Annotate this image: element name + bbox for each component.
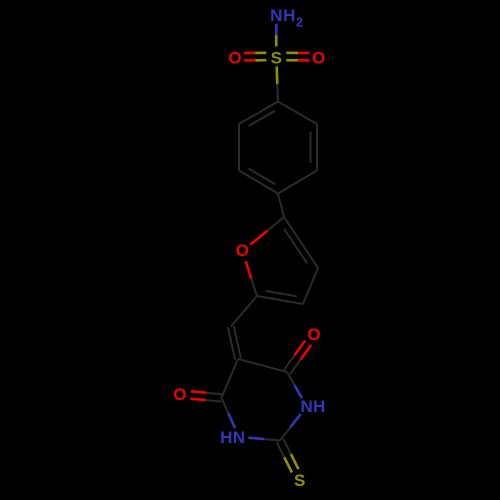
bond C5-C6 pyrimidine — [238, 359, 287, 372]
bond C6-N1 — [287, 372, 295, 385]
bond N-S (sulfonamide) — [275, 24, 278, 35]
bond furan-methine CH — [231, 296, 257, 327]
benzene ring — [278, 102, 317, 125]
bond N3-C4 — [228, 413, 235, 428]
svg-text:O: O — [173, 385, 186, 404]
svg-text:2: 2 — [296, 15, 303, 30]
bond C5furan-O — [267, 217, 284, 231]
svg-text:O: O — [228, 49, 241, 68]
bond C4-C5 pyrimidine — [221, 359, 238, 398]
svg-text:O: O — [312, 49, 325, 68]
double bond C4=O — [206, 393, 221, 394]
double bond S=O right — [286, 59, 298, 62]
bond S-C1 (to benzene) — [275, 66, 278, 84]
svg-text:O: O — [236, 241, 249, 260]
svg-text:N: N — [300, 397, 312, 416]
svg-text:H: H — [313, 397, 325, 416]
double bond C6=O — [290, 360, 301, 375]
bond C2-N3 — [264, 439, 280, 440]
svg-text:S: S — [294, 471, 305, 490]
benzene aromatic inner bonds — [249, 111, 276, 126]
double bond C2=S — [277, 442, 285, 457]
bond benzene-furan — [278, 194, 284, 218]
svg-text:S: S — [271, 48, 282, 67]
bond O-C2furan — [246, 261, 252, 278]
furan C2=C3 double bond — [257, 296, 303, 304]
svg-text:H: H — [220, 428, 232, 447]
bond C4-C3 furan — [303, 268, 318, 304]
svg-text:O: O — [307, 325, 320, 344]
double bond S=O left — [255, 51, 266, 54]
furan C4=C5 double bond — [284, 217, 318, 268]
svg-text:N: N — [270, 6, 282, 25]
exocyclic double bond CH=C5 — [228, 327, 235, 359]
svg-text:H: H — [283, 6, 295, 25]
svg-text:N: N — [233, 428, 245, 447]
bond N1-C2 — [290, 414, 300, 427]
